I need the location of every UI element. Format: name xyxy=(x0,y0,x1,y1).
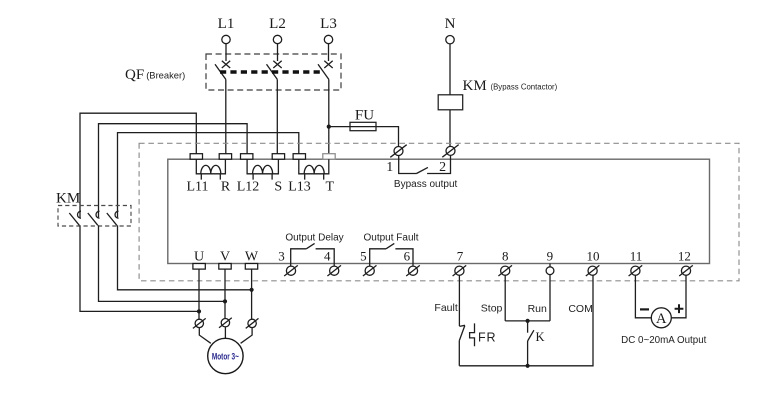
junction V bypass xyxy=(223,299,227,303)
terminal 2 xyxy=(439,145,459,175)
svg-text:V: V xyxy=(220,250,230,265)
svg-text:L3: L3 xyxy=(320,16,337,32)
svg-text:7: 7 xyxy=(457,249,464,264)
svg-text:(Bypass Contactor): (Bypass Contactor) xyxy=(491,83,558,92)
junction K top xyxy=(526,319,530,323)
terminal V xyxy=(219,264,231,270)
current transformer CT1 xyxy=(196,159,225,179)
svg-text:(Breaker): (Breaker) xyxy=(146,70,185,81)
wire V to motor xyxy=(224,269,226,318)
wire KM pole 3 to W node xyxy=(118,225,252,289)
terminal 11 xyxy=(629,249,643,277)
terminal 7 xyxy=(453,249,467,277)
contactor coil KM xyxy=(438,78,557,110)
terminal T xyxy=(323,154,335,160)
node N xyxy=(445,16,456,44)
fuse FU xyxy=(350,108,376,131)
svg-text:L12: L12 xyxy=(237,180,260,195)
svg-text:L13: L13 xyxy=(288,180,311,195)
wire terminal 9 down xyxy=(549,275,551,321)
svg-text:11: 11 xyxy=(630,249,643,264)
KM contact pole 1 xyxy=(69,211,81,225)
motor M1 xyxy=(208,338,243,373)
svg-text:N: N xyxy=(445,16,456,32)
wire N to KM coil xyxy=(449,44,451,95)
wire U to motor xyxy=(198,269,200,319)
terminal 9 xyxy=(546,249,554,275)
bypass output contact xyxy=(399,155,451,173)
svg-text:2: 2 xyxy=(439,160,446,175)
node L1 xyxy=(218,16,235,44)
svg-text:8: 8 xyxy=(502,249,509,264)
wire FU branch xyxy=(329,127,399,147)
output delay contact 3-4 xyxy=(291,243,335,266)
svg-text:12: 12 xyxy=(678,249,691,264)
wire bypass feed phase 3 (KM to L13) xyxy=(118,133,299,218)
terminal L11 xyxy=(190,154,202,160)
svg-text:Motor 3~: Motor 3~ xyxy=(212,352,239,362)
ammeter A xyxy=(651,308,671,328)
svg-text:L1: L1 xyxy=(218,16,235,32)
svg-text:6: 6 xyxy=(404,249,411,264)
svg-text:FR: FR xyxy=(478,331,496,345)
terminal R xyxy=(219,154,231,160)
svg-text:COM: COM xyxy=(568,303,593,315)
wire terminal 8 down xyxy=(504,275,506,321)
current transformer CT2 xyxy=(247,159,278,179)
svg-text:QF: QF xyxy=(125,67,144,83)
junction FU tap xyxy=(327,125,331,129)
contact K (run) xyxy=(528,321,545,366)
wire lug W to motor xyxy=(241,328,253,344)
node L2 xyxy=(269,16,286,44)
terminal 3 xyxy=(278,249,298,277)
svg-text:Run: Run xyxy=(528,303,547,315)
wire terminal 11 to ammeter xyxy=(635,275,651,318)
junction W bypass xyxy=(250,288,254,292)
polarity minus xyxy=(640,308,649,310)
terminal W xyxy=(245,264,257,270)
contactor KM enclosure xyxy=(58,206,131,227)
motor lug W xyxy=(246,318,259,328)
soft starter outer dashed enclosure xyxy=(139,143,739,280)
terminal 1 xyxy=(386,145,406,175)
svg-text:S: S xyxy=(274,180,282,195)
svg-text:KM: KM xyxy=(56,191,80,207)
terminal L12 xyxy=(241,154,253,160)
svg-text:Stop: Stop xyxy=(481,303,503,315)
junction U bypass xyxy=(197,309,201,313)
svg-text:L11: L11 xyxy=(186,180,208,195)
wire FR to common rail xyxy=(458,341,460,366)
svg-text:U: U xyxy=(194,250,204,265)
svg-text:4: 4 xyxy=(324,249,331,264)
terminal 10 xyxy=(586,249,600,277)
wire KM pole 2 to V node xyxy=(99,225,226,301)
wire KM pole 1 to U node xyxy=(80,225,199,311)
svg-text:3: 3 xyxy=(278,249,285,264)
KM contact pole 2 xyxy=(88,211,100,225)
svg-text:KM: KM xyxy=(463,78,487,94)
breaker pole 1 xyxy=(215,44,230,154)
wire lug U to motor xyxy=(199,328,211,344)
svg-text:T: T xyxy=(326,180,335,195)
svg-text:Fault: Fault xyxy=(434,302,457,314)
svg-text:L2: L2 xyxy=(269,16,286,32)
svg-text:K: K xyxy=(536,330,545,344)
breaker pole 3 xyxy=(318,44,333,154)
polarity plus xyxy=(675,304,684,313)
terminal 12 xyxy=(678,249,693,277)
KM contact pole 3 xyxy=(107,211,119,225)
wire W to motor xyxy=(251,269,253,319)
wire terminal 7 to FR xyxy=(458,275,460,326)
current transformer CT3 xyxy=(299,159,329,179)
terminal L13 xyxy=(293,154,305,160)
terminal 5 xyxy=(360,249,376,277)
motor lug V xyxy=(219,318,232,328)
terminal S xyxy=(272,154,284,160)
wire terminal 12 to ammeter xyxy=(671,275,686,318)
svg-text:FU: FU xyxy=(355,108,374,124)
svg-text:5: 5 xyxy=(360,249,367,264)
wire lug V to motor xyxy=(224,327,226,339)
wire KM coil to terminal 2 xyxy=(449,110,451,147)
svg-text:Bypass output: Bypass output xyxy=(394,179,458,190)
svg-text:A: A xyxy=(656,311,667,327)
wire bypass feed phase 2 (KM to L12) xyxy=(99,124,248,218)
svg-text:R: R xyxy=(221,180,231,195)
output fault contact 5-6 xyxy=(370,243,413,266)
wire bypass feed phase 1 (KM to L11) xyxy=(80,113,196,217)
common rail wire xyxy=(459,275,593,366)
breaker trip bar xyxy=(220,70,323,73)
node L3 xyxy=(320,16,337,44)
svg-text:DC 0~20mA Output: DC 0~20mA Output xyxy=(621,335,707,346)
terminal U xyxy=(193,264,205,270)
svg-text:1: 1 xyxy=(386,160,393,175)
breaker QF enclosure xyxy=(206,54,341,90)
soft starter main body xyxy=(168,159,710,263)
wire stop-run link xyxy=(505,320,550,322)
terminal 4 xyxy=(324,249,341,277)
svg-text:Output Fault: Output Fault xyxy=(363,233,418,244)
svg-text:W: W xyxy=(245,250,259,265)
svg-text:9: 9 xyxy=(547,249,554,264)
motor lug U xyxy=(193,318,206,328)
junction K bottom xyxy=(526,364,530,368)
breaker QF label xyxy=(125,67,185,83)
terminal 8 xyxy=(498,249,512,277)
svg-text:Output Delay: Output Delay xyxy=(285,233,343,244)
breaker pole 2 xyxy=(267,44,282,154)
svg-text:10: 10 xyxy=(587,249,600,264)
contact FR (NC thermal) xyxy=(459,323,496,346)
terminal 6 xyxy=(404,249,420,277)
